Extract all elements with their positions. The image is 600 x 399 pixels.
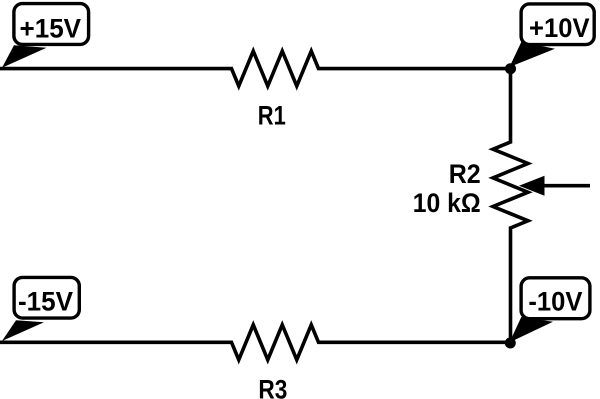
svg-text:R2: R2 <box>449 159 481 189</box>
svg-text:-10V: -10V <box>528 287 582 317</box>
svg-text:+10V: +10V <box>529 13 590 43</box>
svg-text:R1: R1 <box>258 101 286 131</box>
svg-text:R3: R3 <box>258 375 287 399</box>
svg-text:-15V: -15V <box>18 287 73 317</box>
svg-text:10 kΩ: 10 kΩ <box>413 188 481 218</box>
svg-text:+15V: +15V <box>20 13 82 43</box>
